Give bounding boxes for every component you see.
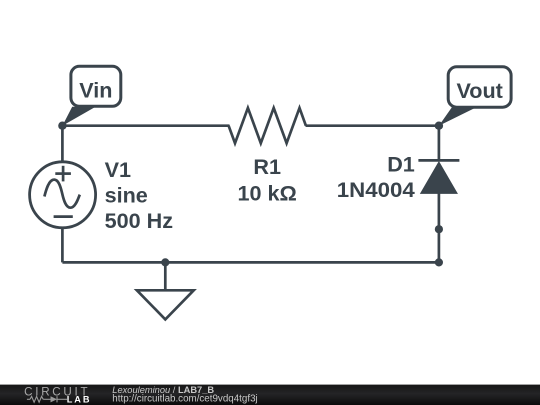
- diode D1 triangle: [421, 162, 457, 193]
- CircuitLab logo wire-resistor-diode glyph: [27, 396, 67, 402]
- ground symbol: [137, 290, 194, 319]
- resistor R1 zigzag: [229, 108, 306, 143]
- node junction dot at diode anode wire: [435, 225, 443, 233]
- node junction dot ground: [161, 258, 169, 266]
- node Vout dot: [435, 122, 443, 130]
- svg-text:R1: R1: [253, 154, 281, 179]
- diode D1 cathode bar: [418, 159, 459, 162]
- wire ground stub: [164, 262, 167, 290]
- V1 plus sign: [55, 166, 71, 182]
- wire V1 bottom: [61, 227, 64, 262]
- svg-text:Vout: Vout: [457, 78, 503, 103]
- voltage source V1 circle: [30, 162, 96, 228]
- wire top right (R1 to Vout node): [306, 124, 439, 127]
- wire bottom: [62, 261, 439, 264]
- Vout flag tail: [439, 107, 477, 126]
- Vin flag box: [71, 66, 121, 106]
- wire top left (Vin node to R1): [62, 124, 229, 127]
- svg-text:D1: D1: [387, 152, 415, 177]
- node Vin dot: [58, 122, 66, 130]
- svg-text:1N4004: 1N4004: [337, 177, 415, 202]
- wire diode top: [438, 126, 441, 161]
- V1 minus sign: [54, 215, 73, 218]
- V1 sine waveform: [44, 180, 79, 208]
- svg-text:LAB: LAB: [67, 394, 92, 404]
- svg-text:10 kΩ: 10 kΩ: [238, 181, 297, 206]
- footer bar: [0, 385, 540, 405]
- svg-text:http://circuitlab.com/cet9vdq4: http://circuitlab.com/cet9vdq4tgf3j: [112, 394, 257, 405]
- wire diode bottom: [438, 193, 441, 262]
- wire V1 top: [61, 126, 64, 163]
- node junction dot bottom right: [435, 258, 443, 266]
- svg-text:V1: V1: [105, 157, 131, 182]
- svg-text:Vin: Vin: [79, 78, 112, 103]
- Vin flag tail: [62, 107, 95, 126]
- svg-text:500 Hz: 500 Hz: [105, 208, 174, 233]
- svg-text:sine: sine: [105, 182, 148, 207]
- Vout flag box: [448, 67, 511, 107]
